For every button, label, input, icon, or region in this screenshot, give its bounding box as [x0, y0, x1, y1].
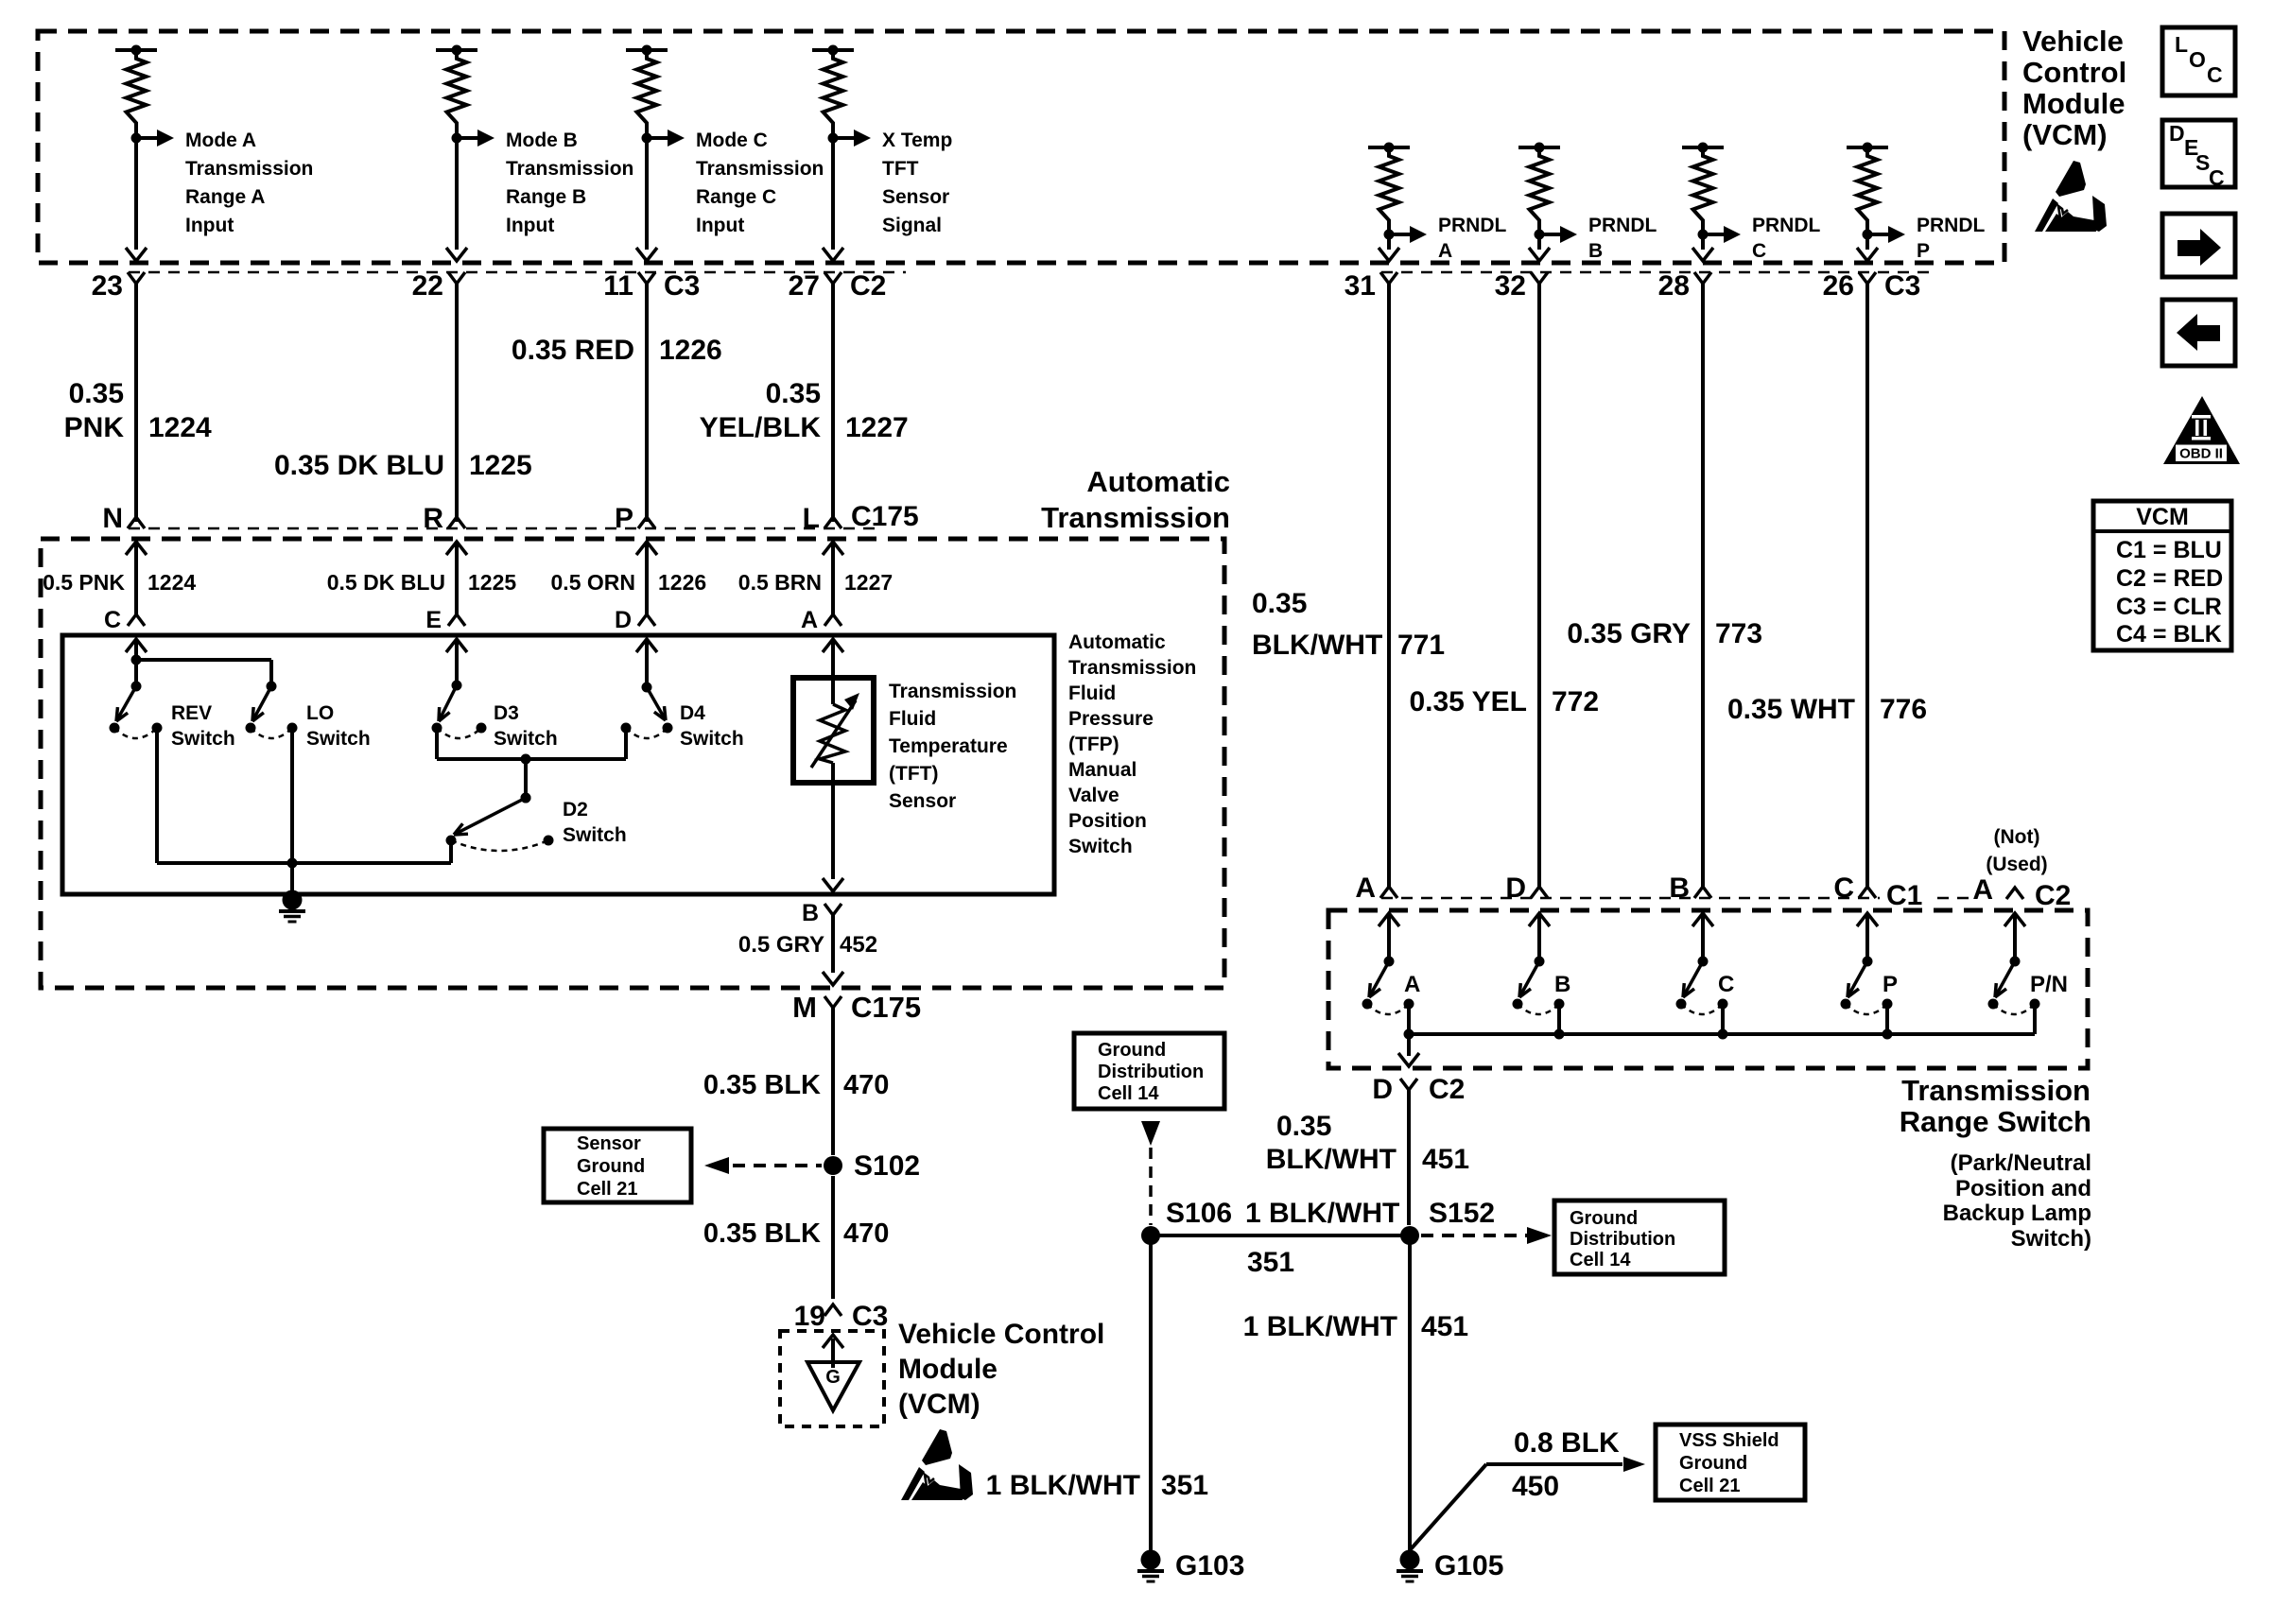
svg-text:Position: Position	[1068, 810, 1147, 832]
svg-text:C175: C175	[851, 991, 921, 1024]
svg-text:C3: C3	[852, 1301, 888, 1332]
wire PRNDL B output	[1529, 234, 1550, 261]
svg-text:Control: Control	[2022, 56, 2126, 89]
ground reference G triangle	[807, 1362, 859, 1410]
svg-text:C3: C3	[1884, 270, 1920, 302]
svg-text:Transmission: Transmission	[1068, 657, 1196, 679]
OBD II symbol	[2163, 396, 2240, 464]
AT pin letter E	[425, 607, 465, 633]
svg-text:0.35 WHT: 0.35 WHT	[1727, 694, 1855, 725]
svg-text:A: A	[1404, 972, 1420, 997]
svg-text:Input: Input	[506, 215, 554, 236]
label 1 BLK/WHT 451	[1243, 1311, 1468, 1342]
svg-text:(Used): (Used)	[1986, 854, 2047, 875]
wire 450 (0.8 BLK)	[1410, 1457, 1645, 1550]
wire Mode C output	[636, 138, 657, 261]
wire into AT pin C	[126, 542, 147, 616]
svg-text:Transmission: Transmission	[889, 681, 1016, 702]
svg-text:C2: C2	[2035, 880, 2071, 911]
resistor R4 (pull-up, X Temp)	[812, 45, 854, 144]
svg-text:YEL/BLK: YEL/BLK	[700, 412, 822, 443]
VCM module title text	[2022, 25, 2126, 151]
tap arrow Mode B	[457, 130, 495, 147]
TRS switch A	[1362, 957, 1414, 1015]
ground G105	[1397, 1550, 1503, 1582]
TRS pin C	[1833, 872, 1876, 904]
wire bus D3-D4	[437, 754, 626, 765]
ground G103	[1137, 1550, 1244, 1582]
svg-text:Pressure: Pressure	[1068, 708, 1154, 730]
svg-text:Range C: Range C	[696, 186, 776, 208]
wire S152 to G105	[1408, 1235, 1412, 1552]
wire D4 contact down	[624, 728, 628, 759]
svg-text:27: 27	[789, 270, 820, 302]
svg-text:(TFP): (TFP)	[1068, 734, 1119, 755]
svg-text:1225: 1225	[468, 570, 516, 595]
svg-text:0.35 DK BLU: 0.35 DK BLU	[274, 450, 444, 481]
svg-text:D3: D3	[494, 702, 519, 724]
resistor R8 (PRNDL P pull-up)	[1847, 143, 1888, 240]
svg-text:Vehicle Control: Vehicle Control	[898, 1319, 1104, 1350]
wire TRS output D	[1398, 1034, 1419, 1066]
svg-text:0.35: 0.35	[1276, 1111, 1331, 1142]
svg-text:C175: C175	[851, 501, 919, 532]
svg-text:C1 = BLU: C1 = BLU	[2116, 537, 2222, 563]
svg-text:P/N: P/N	[2030, 972, 2068, 997]
label 0.35 GRY 773	[1567, 618, 1762, 649]
pin 11 fork and label	[603, 270, 700, 302]
label 0.35 BLK 470 lower	[703, 1218, 890, 1249]
svg-text:C2: C2	[850, 270, 886, 302]
connector M C175 fork	[792, 991, 921, 1024]
svg-text:C2: C2	[1429, 1074, 1465, 1105]
svg-text:Cell 21: Cell 21	[577, 1179, 637, 1200]
TRS switch C	[1676, 957, 1728, 1015]
wire D3 pivot down	[435, 728, 439, 759]
svg-text:PRNDL: PRNDL	[1752, 215, 1821, 236]
svg-text:Transmission: Transmission	[696, 158, 824, 180]
pin 28 fork and label	[1658, 270, 1711, 302]
svg-text:Transmission: Transmission	[506, 158, 633, 180]
TRS switch B	[1513, 957, 1565, 1015]
label 0.5 ORN 1226	[551, 570, 707, 595]
svg-text:(VCM): (VCM)	[2022, 118, 2108, 151]
wire 452 (GRY)	[823, 915, 843, 985]
svg-text:28: 28	[1658, 270, 1690, 302]
pin 31 fork and label	[1345, 270, 1397, 302]
label Mode B Range B	[506, 130, 633, 236]
tap arrow Mode C	[647, 130, 685, 147]
svg-text:X Temp: X Temp	[882, 130, 952, 151]
label PRNDL P	[1917, 215, 1986, 262]
TRS switch P/N	[1988, 957, 2040, 1015]
svg-text:Fluid: Fluid	[1068, 682, 1116, 704]
svg-text:PRNDL: PRNDL	[1917, 215, 1986, 236]
title Automatic Transmission	[1041, 465, 1230, 534]
svg-text:L: L	[2175, 32, 2188, 57]
svg-text:0.35 YEL: 0.35 YEL	[1409, 686, 1527, 717]
wire TFT to pin B	[823, 783, 843, 891]
svg-text:VSS Shield: VSS Shield	[1679, 1430, 1779, 1451]
TRS connector dashed line	[1381, 897, 2066, 900]
svg-text:452: 452	[840, 932, 877, 958]
svg-text:776: 776	[1880, 694, 1927, 725]
wire 470 lower	[831, 1176, 835, 1299]
svg-text:Transmission: Transmission	[185, 158, 313, 180]
wire D2 stem	[521, 759, 531, 803]
svg-text:O: O	[2189, 47, 2206, 72]
switch D4	[621, 682, 673, 739]
label D3 Switch	[494, 702, 558, 750]
label 0.35 BLK/WHT 451	[1266, 1111, 1469, 1175]
svg-text:(VCM): (VCM)	[898, 1389, 980, 1420]
svg-text:23: 23	[92, 270, 123, 302]
wire C down to REV	[134, 660, 138, 686]
wire pin E into box	[446, 639, 467, 685]
svg-text:0.5 ORN: 0.5 ORN	[551, 570, 635, 595]
svg-text:1224: 1224	[147, 570, 196, 595]
wire REV contact down	[155, 728, 159, 863]
svg-text:773: 773	[1715, 618, 1762, 649]
svg-text:Fluid: Fluid	[889, 708, 936, 730]
wire 776	[1865, 284, 1869, 887]
svg-text:Transmission: Transmission	[1041, 501, 1230, 534]
wire 1226 (RED)	[645, 284, 649, 522]
label 0.35 BLK 470 upper	[703, 1070, 890, 1100]
label REV Switch	[171, 702, 235, 750]
svg-text:Module: Module	[898, 1354, 998, 1385]
subtitle Park/Neutral Position and Backup Lamp Switch	[1943, 1150, 2091, 1252]
svg-text:1 BLK/WHT: 1 BLK/WHT	[986, 1470, 1140, 1501]
svg-text:Sensor: Sensor	[577, 1133, 641, 1154]
connector C175 dashed line	[129, 527, 879, 530]
wire pin C into box	[126, 639, 147, 665]
svg-text:D4: D4	[680, 702, 705, 724]
label Mode C Range C	[696, 130, 824, 236]
label D2 Switch	[563, 799, 627, 846]
svg-text:Module: Module	[2022, 87, 2126, 120]
wire 470 upper	[831, 1008, 835, 1155]
wire into AT pin D	[636, 542, 657, 616]
svg-text:19: 19	[794, 1301, 825, 1332]
svg-text:N: N	[102, 503, 123, 534]
svg-text:VCM: VCM	[2136, 504, 2189, 530]
svg-text:D: D	[1505, 872, 1526, 904]
label Mode A Range A	[185, 130, 313, 236]
svg-text:C: C	[1833, 872, 1854, 904]
wire into AT pin E	[446, 542, 467, 616]
svg-text:C: C	[1752, 240, 1766, 262]
switch D2	[446, 793, 554, 852]
wire 1224 (PNK)	[134, 284, 138, 522]
wire into AT pin A	[823, 542, 843, 616]
svg-text:772: 772	[1552, 686, 1599, 717]
TFP manual valve position switch box	[62, 635, 1054, 894]
label 0.35 DK BLU 1225	[274, 450, 532, 481]
svg-text:D: D	[1372, 1074, 1393, 1105]
svg-text:(Not): (Not)	[1994, 826, 2040, 848]
svg-text:LO: LO	[306, 702, 334, 724]
svg-text:P: P	[615, 503, 633, 534]
svg-text:451: 451	[1422, 1144, 1469, 1175]
svg-text:BLK/WHT: BLK/WHT	[1252, 630, 1382, 661]
VCM connector dashed line (right group)	[1381, 271, 1929, 274]
svg-text:Mode C: Mode C	[696, 130, 768, 151]
svg-text:C: C	[104, 607, 121, 633]
label C1	[1880, 877, 1931, 911]
C175 pin L	[803, 503, 842, 534]
svg-text:Range B: Range B	[506, 186, 586, 208]
svg-text:Position and: Position and	[1955, 1176, 2091, 1201]
TRS bus junction dots	[1404, 1029, 1893, 1040]
svg-text:B: B	[1669, 872, 1690, 904]
label 0.5 GRY 452	[738, 932, 877, 958]
label 0.35 PNK 1224	[64, 378, 212, 443]
label 0.35 WHT 776	[1727, 694, 1927, 725]
svg-text:Vehicle: Vehicle	[2022, 25, 2124, 58]
svg-text:OBD II: OBD II	[2179, 446, 2223, 462]
svg-text:Switch: Switch	[680, 728, 744, 750]
svg-text:Switch: Switch	[171, 728, 235, 750]
svg-text:(TFT): (TFT)	[889, 763, 938, 785]
tap arrow PRNDL C	[1703, 226, 1741, 243]
pin 23 fork and label	[92, 270, 145, 302]
title Transmission Range Switch	[1900, 1074, 2091, 1138]
VCM ground dashed box	[780, 1331, 884, 1426]
svg-text:Signal: Signal	[882, 215, 942, 236]
svg-text:1225: 1225	[469, 450, 532, 481]
label PRNDL B	[1588, 215, 1657, 262]
svg-text:26: 26	[1823, 270, 1854, 302]
wire 1225 (DK BLU)	[455, 284, 459, 522]
TRS pin A C2 (not used)	[1972, 874, 2080, 911]
svg-text:Switch: Switch	[1068, 836, 1133, 857]
wire PRNDL C output	[1692, 234, 1713, 261]
legend forward arrow box	[2162, 214, 2235, 277]
label 0.35 YEL/BLK 1227	[700, 378, 909, 443]
svg-text:S152: S152	[1429, 1198, 1495, 1229]
svg-text:Cell 14: Cell 14	[1098, 1083, 1159, 1104]
svg-text:0.35: 0.35	[69, 378, 124, 409]
svg-text:C1: C1	[1886, 880, 1922, 911]
wire 773	[1701, 284, 1705, 887]
wire 1227 (YEL/BLK)	[831, 284, 835, 522]
svg-text:Backup Lamp: Backup Lamp	[1943, 1201, 2091, 1226]
svg-text:0.35: 0.35	[766, 378, 821, 409]
wire PRNDL A output	[1379, 234, 1399, 261]
wire S106-S152	[1151, 1234, 1410, 1237]
svg-text:351: 351	[1161, 1470, 1208, 1501]
Ground Distribution Cell 14 box (right)	[1554, 1201, 1725, 1274]
wire LO contact down to ground	[290, 728, 294, 900]
wire Mode B output	[446, 138, 467, 261]
wire pin A into box	[823, 639, 843, 678]
TRS pin A	[1355, 872, 1397, 904]
TRS wire C up	[1692, 913, 1713, 961]
tap arrow PRNDL P	[1867, 226, 1905, 243]
arrowhead below ground distribution box	[1141, 1121, 1160, 1146]
TRS switch P	[1841, 957, 1893, 1015]
svg-text:C3: C3	[664, 270, 700, 302]
svg-text:0.35 BLK: 0.35 BLK	[703, 1070, 821, 1100]
svg-text:S102: S102	[854, 1150, 920, 1182]
wire pin D into box	[636, 639, 657, 687]
svg-text:450: 450	[1512, 1471, 1559, 1502]
dashed wire to S106	[1149, 1148, 1153, 1225]
svg-text:1226: 1226	[659, 335, 722, 366]
TRS pin B	[1669, 872, 1711, 904]
wire S106 to G103	[1149, 1235, 1153, 1552]
resistor R2 (pull-up, Mode B)	[436, 45, 477, 144]
ESD sensitivity symbol (VCM top right)	[2035, 161, 2107, 232]
svg-text:C: C	[2207, 62, 2223, 87]
switch REV	[110, 682, 163, 739]
legend DESC box	[2162, 120, 2235, 190]
svg-text:1224: 1224	[148, 412, 212, 443]
svg-text:Input: Input	[696, 215, 744, 236]
wire contact down x=1628	[1557, 1004, 1561, 1034]
tap arrow PRNDL B	[1539, 226, 1577, 243]
svg-text:Ground: Ground	[1570, 1208, 1638, 1229]
TRS wire P up	[1857, 913, 1878, 961]
wire 771	[1387, 284, 1391, 887]
dashed arrow to ground distribution right	[1421, 1227, 1552, 1244]
legend LOC box	[2162, 27, 2235, 95]
C175 pin P	[615, 503, 655, 534]
svg-text:R: R	[423, 503, 443, 534]
svg-text:0.5 GRY: 0.5 GRY	[738, 932, 824, 958]
pin 27 fork and label	[789, 270, 887, 302]
label 0.5 BRN 1227	[738, 570, 893, 595]
label TFP switch (right side)	[1068, 631, 1196, 857]
label TFT sensor	[889, 681, 1016, 812]
svg-text:0.35 RED: 0.35 RED	[512, 335, 634, 366]
svg-text:REV: REV	[171, 702, 212, 724]
svg-text:0.35: 0.35	[1252, 588, 1307, 619]
svg-text:PRNDL: PRNDL	[1438, 215, 1507, 236]
TRS wire P/N up	[2004, 913, 2025, 961]
TRS switch label P/N	[2030, 972, 2068, 997]
label 1 BLK/WHT 351 (horizontal)	[1245, 1198, 1399, 1278]
svg-text:PNK: PNK	[64, 412, 125, 443]
svg-text:D: D	[2169, 121, 2185, 146]
label C175	[851, 501, 919, 532]
svg-text:0.8 BLK: 0.8 BLK	[1514, 1427, 1620, 1459]
wire contact down x=1801	[1721, 1004, 1725, 1034]
C175 pin N	[102, 503, 145, 534]
pin 22 fork and label	[412, 270, 465, 302]
wire into VCM ground	[823, 1335, 843, 1368]
resistor R1 (pull-up, Mode A)	[115, 45, 157, 144]
svg-text:0.5 DK BLU: 0.5 DK BLU	[327, 570, 445, 595]
svg-text:Switch): Switch)	[2011, 1226, 2091, 1252]
label 0.8 BLK 450	[1512, 1427, 1620, 1502]
svg-text:Valve: Valve	[1068, 785, 1119, 806]
resistor R6 (PRNDL B pull-up)	[1518, 143, 1560, 240]
svg-text:G103: G103	[1175, 1550, 1244, 1581]
switch LO	[246, 682, 298, 739]
svg-text:31: 31	[1345, 270, 1376, 302]
svg-text:470: 470	[843, 1218, 889, 1249]
svg-text:D: D	[615, 607, 632, 633]
svg-text:470: 470	[843, 1070, 889, 1100]
svg-text:C: C	[2209, 165, 2225, 190]
svg-text:451: 451	[1421, 1311, 1468, 1342]
tap arrow X Temp	[833, 130, 871, 147]
svg-text:S106: S106	[1166, 1198, 1232, 1229]
svg-text:1 BLK/WHT: 1 BLK/WHT	[1245, 1198, 1399, 1229]
svg-text:22: 22	[412, 270, 443, 302]
Transmission Range Switch dashed box	[1328, 910, 2088, 1068]
svg-text:C4 = BLK: C4 = BLK	[2116, 621, 2222, 648]
svg-text:32: 32	[1495, 270, 1526, 302]
dashed arrow to sensor ground	[704, 1157, 822, 1174]
AT pin letter D	[615, 607, 655, 633]
svg-text:PRNDL: PRNDL	[1588, 215, 1657, 236]
wire D2 pivot to bus	[449, 840, 453, 863]
wire branch to LO	[136, 660, 271, 686]
VCM module dashed outline box	[38, 31, 2004, 263]
resistor R7 (PRNDL C pull-up)	[1682, 143, 1724, 240]
svg-text:Ground: Ground	[1098, 1040, 1166, 1061]
AT pin letter A	[801, 607, 842, 633]
C175 pin R	[423, 503, 465, 534]
tap arrow PRNDL A	[1389, 226, 1427, 243]
svg-text:0.5 PNK: 0.5 PNK	[43, 570, 125, 595]
ground (TFP switch common)	[279, 890, 305, 923]
TRS pin D C2	[1372, 1074, 1465, 1105]
svg-text:P: P	[1883, 972, 1898, 997]
svg-text:Switch: Switch	[563, 824, 627, 846]
label 0.5 DK BLU 1225	[327, 570, 517, 595]
label X Temp Sensor	[882, 130, 952, 236]
svg-text:1 BLK/WHT: 1 BLK/WHT	[1243, 1311, 1397, 1342]
svg-text:Automatic: Automatic	[1068, 631, 1166, 653]
svg-text:D2: D2	[563, 799, 588, 821]
svg-text:1227: 1227	[844, 570, 893, 595]
wire Mode A output	[126, 138, 147, 261]
svg-text:L: L	[803, 503, 820, 534]
VCM connector dashed line (left group)	[129, 271, 906, 274]
svg-text:Input: Input	[185, 215, 234, 236]
svg-text:1227: 1227	[845, 412, 909, 443]
Sensor Ground Cell 21 box	[544, 1129, 691, 1202]
wire X Temp output	[823, 138, 843, 261]
wire 451 (0.35 BLK/WHT)	[1407, 1090, 1411, 1225]
svg-text:B: B	[802, 900, 819, 926]
svg-text:Distribution: Distribution	[1570, 1229, 1675, 1250]
svg-text:A: A	[1972, 874, 1993, 906]
svg-text:0.5 BRN: 0.5 BRN	[738, 570, 822, 595]
svg-text:G: G	[825, 1367, 841, 1388]
svg-text:Manual: Manual	[1068, 759, 1136, 781]
label (Not) (Used)	[1986, 826, 2047, 875]
label PRNDL C	[1752, 215, 1821, 262]
svg-text:A: A	[801, 607, 818, 633]
svg-text:771: 771	[1397, 630, 1445, 661]
TRS switch label P	[1883, 972, 1898, 997]
Automatic Transmission dashed outline box	[41, 539, 1224, 988]
VCM connector color table	[2093, 501, 2231, 650]
svg-text:0.35 BLK: 0.35 BLK	[703, 1218, 821, 1249]
svg-text:B: B	[1554, 972, 1570, 997]
svg-text:P: P	[1917, 240, 1930, 262]
TRS wire A up	[1379, 913, 1399, 961]
splice S106	[1141, 1198, 1232, 1245]
svg-text:TFT: TFT	[882, 158, 919, 180]
svg-text:Switch: Switch	[306, 728, 371, 750]
Ground Distribution Cell 14 box (left)	[1074, 1033, 1224, 1109]
